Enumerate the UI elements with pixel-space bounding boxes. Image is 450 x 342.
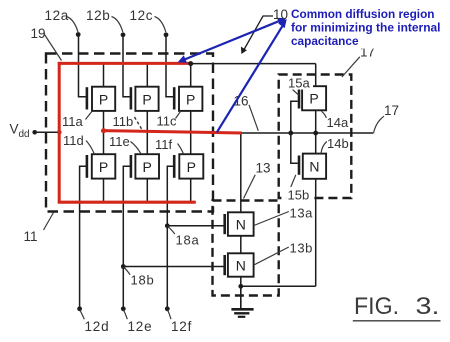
node 12e terminal dot [121,306,126,311]
transistor 11f body box [179,154,203,178]
leader for label 12a [67,17,79,33]
svg-text:12b: 12b [86,8,110,23]
svg-text:15b: 15b [288,188,310,203]
figure title underline [353,320,441,322]
svg-text:P: P [99,159,108,175]
transistor 14a body box [302,86,326,110]
svg-text:3.: 3. [416,293,440,320]
svg-text:11f: 11f [155,137,172,152]
wire Vdd lead-in [35,131,60,133]
leader for label 19 [44,33,62,61]
leader for label 12e [124,310,128,319]
svg-text:11: 11 [24,229,38,244]
wire ground rail [241,285,316,287]
wire 18a (gate lead of 13a) [167,225,224,227]
svg-text:19: 19 [31,26,46,41]
leader for label 11b (dashed) [135,117,143,131]
transistor 11e body box [135,154,159,178]
leader for label 12b [112,17,123,33]
wire 12b gate column [123,35,130,97]
wire Vdd rail (top horizontal) [59,63,316,65]
transistor Q 11e gate bar [130,155,133,178]
wire common node line (mid horizontal to inverter) [241,132,374,134]
svg-text:13: 13 [256,161,271,176]
transistor Q 11d gate bar [86,155,89,178]
node Vdd terminal dot [32,130,37,135]
transistor Q 11b gate bar [130,87,133,109]
svg-text:18b: 18b [131,273,155,288]
leader for label 14a [322,111,327,118]
transistor 13a body box [228,212,254,236]
svg-text:13b: 13b [290,241,314,256]
node rail junction dot at 11c column [188,61,193,66]
callout 10 leader with arrowhead [244,16,274,51]
svg-text:12c: 12c [130,8,154,23]
svg-text:11e: 11e [109,134,130,149]
leader for label 18b [124,267,131,275]
leader for label 11a [86,112,92,120]
transistor 11c body box [179,87,202,111]
svg-text:11b: 11b [113,114,134,129]
leader for label 11f [178,144,184,155]
leader for label 11e [131,142,142,154]
node ground junction dot [238,284,243,289]
svg-text:12d: 12d [85,319,110,334]
leader for label 17 right [374,116,384,133]
svg-text:P: P [142,91,151,107]
svg-text:17: 17 [384,103,399,118]
svg-text:12f: 12f [171,319,192,334]
svg-text:15a: 15a [288,76,310,91]
svg-text:FIG.: FIG. [354,293,399,320]
svg-text:P: P [309,91,318,107]
svg-text:N: N [309,158,319,174]
svg-text:14a: 14a [327,115,349,130]
blue arrow A (to red rail end) [178,18,287,63]
label 15b (with white backing) [287,187,314,202]
wire 12f gate column [167,166,173,308]
wire 18b (gate lead of 13b) [123,266,224,268]
node 18a tap dot [165,223,170,228]
wire chain column B (11b-11e) [146,64,148,202]
leader for label 13b [254,247,289,265]
svg-text:for minimizing the internal: for minimizing the internal [291,20,441,34]
transistor 13b body box [228,253,254,276]
node inverter drain junction dot [313,131,318,136]
leader for label 11 [44,213,54,231]
leader for label 16 [249,105,258,131]
node red junction blob at Vdd tie [57,130,62,135]
transistor 13a gate bar [223,214,226,234]
node red junction blob at chain A [101,128,106,133]
svg-text:14b: 14b [327,136,349,151]
leader for label 15b [291,175,296,187]
dashed box 19 (PMOS block outline) [46,54,213,212]
node 12d terminal dot [77,306,82,311]
leader for label 12c [155,17,166,33]
wire inverter source/drain column [315,64,317,287]
leader for label 17 top [342,57,360,77]
svg-text:P: P [99,91,108,107]
transistor 11a body box [92,87,115,111]
svg-text:capacitance: capacitance [291,34,359,48]
transistor 13b gate bar [223,255,226,275]
svg-text:18a: 18a [176,233,200,248]
wire 12d gate column [80,166,87,308]
wire chain column A (11a-11d) [103,64,105,202]
leader for label 11d [86,141,94,155]
svg-text:P: P [187,159,196,175]
leader for label 15a [293,90,299,96]
red wire top segment [58,62,191,65]
ground symbol [231,286,253,317]
node 12c terminal dot [164,32,169,37]
blue annotation text [291,7,441,48]
leader for label 11c [176,112,181,119]
node 18b tap dot [121,264,126,269]
svg-text:11c: 11c [157,114,177,129]
svg-text:11a: 11a [62,114,83,129]
svg-text:16: 16 [234,94,249,109]
red highlighted common-diffusion wiring [58,62,242,202]
wire N-chain drop (node to 13a) [240,133,242,286]
svg-text:V: V [10,122,19,137]
wire 12a gate column [79,35,87,97]
svg-text:P: P [143,159,152,175]
svg-text:N: N [236,257,246,273]
wire 12c gate column [166,35,174,97]
label 15a (with white backing) [287,77,313,90]
leader for label 13 [244,175,256,199]
transistor 14b body box [303,154,326,179]
svg-text:11d: 11d [63,133,84,148]
wire inverter gate tie [291,101,298,163]
svg-text:13a: 13a [290,206,314,221]
dashed box 17 (inverter block outline) [279,75,352,199]
svg-text:12a: 12a [45,8,69,23]
node 12a terminal dot [76,32,81,37]
transistor Q 11f gate bar [173,155,176,178]
svg-text:P: P [186,91,195,107]
transistor Q 11c gate bar [173,87,176,109]
svg-text:12e: 12e [128,319,153,334]
red wire left vertical [58,62,61,202]
red wire bottom segment [58,201,196,204]
node 12f terminal dot [165,306,170,311]
wire chain column C (11c-11f) [190,64,192,202]
blue arrow B (to red middle wire) [217,19,287,132]
leader for label 13a [254,212,289,226]
node 12b terminal dot [121,32,126,37]
leader for label 18a [168,226,175,234]
dashed box 13 (NMOS block outline) [213,201,279,296]
leader for label 14b [321,142,327,154]
node inverter gate junction dot [288,131,293,136]
transistor 14a gate bar [298,89,301,109]
red wire middle segment [102,131,243,133]
transistor 11b body box [135,87,158,111]
svg-text:N: N [236,217,246,233]
leader for label 12f [168,310,172,319]
leader for label 12d [80,310,85,319]
wire 12e gate column [123,166,130,308]
transistor 14b gate bar [298,156,301,175]
svg-text:Common diffusion region: Common diffusion region [291,7,435,21]
svg-text:dd: dd [19,129,30,140]
svg-text:10: 10 [273,7,288,22]
transistor 11d body box [92,154,116,178]
transistor Q 11a gate bar [86,87,89,109]
